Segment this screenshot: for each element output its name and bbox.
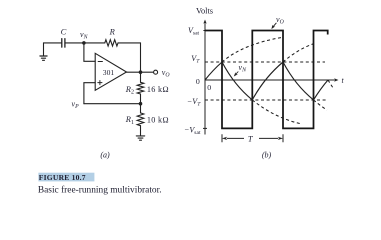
wire R2 to node vP to R1 xyxy=(140,94,142,113)
svg-text:C: C xyxy=(61,27,67,37)
svg-text:vO: vO xyxy=(276,15,285,26)
dashed exp arc 4 xyxy=(314,100,328,110)
tick -Vsat xyxy=(203,127,207,129)
svg-text:T: T xyxy=(248,134,254,143)
svg-text:Vsat: Vsat xyxy=(188,26,200,37)
tick Vsat xyxy=(203,30,205,32)
wire ground to C xyxy=(44,42,62,44)
dashed tail xyxy=(328,80,334,90)
wire node vP rail xyxy=(84,103,141,105)
resistor R xyxy=(105,40,118,46)
ground (left, at C input) xyxy=(40,43,47,60)
svg-text:(a): (a) xyxy=(100,150,110,159)
svg-text:FIGURE 10.7: FIGURE 10.7 xyxy=(39,173,86,182)
ground (below R1) xyxy=(136,136,144,140)
wire vN to inverting input xyxy=(84,43,95,61)
svg-text:10 kΩ: 10 kΩ xyxy=(147,115,169,124)
svg-text:Basic free-running multivibrat: Basic free-running multivibrator. xyxy=(38,185,162,196)
pin plus (noninverting input) xyxy=(98,81,102,85)
resistor R2 xyxy=(137,82,144,94)
svg-text:vN: vN xyxy=(239,63,248,74)
y axis xyxy=(204,22,206,135)
svg-text:(b): (b) xyxy=(262,150,272,159)
svg-text:16 kΩ: 16 kΩ xyxy=(147,85,169,94)
dashed exp arc 3 xyxy=(283,44,314,62)
waveform vN solid xyxy=(205,62,328,100)
node output junction xyxy=(139,70,143,74)
svg-text:0: 0 xyxy=(207,83,211,92)
label vO arrow xyxy=(271,15,284,29)
dashed -VT line xyxy=(205,99,327,101)
label vN arrow xyxy=(234,63,247,76)
svg-text:301: 301 xyxy=(103,68,115,77)
svg-text:Volts: Volts xyxy=(196,7,213,16)
T dimension xyxy=(222,134,283,142)
square wave vO xyxy=(205,31,328,129)
t axis xyxy=(205,79,337,81)
caption highlight xyxy=(38,173,94,182)
node vN junction xyxy=(82,41,86,45)
wire R to output branch xyxy=(118,43,141,82)
svg-text:R: R xyxy=(109,27,116,37)
svg-text:R2: R2 xyxy=(125,84,134,96)
wire noninverting input to vP rail xyxy=(84,83,95,104)
svg-text:t: t xyxy=(342,76,345,85)
pin minus (inverting input) xyxy=(98,61,102,63)
axis arrow right xyxy=(334,78,338,81)
capacitor C xyxy=(62,39,65,47)
op-amp 301 xyxy=(95,53,126,90)
svg-text:VT: VT xyxy=(191,54,200,64)
svg-text:vO: vO xyxy=(162,68,171,79)
dashed exp arc 1 xyxy=(222,37,283,62)
terminal vO xyxy=(154,70,158,74)
node vP junction (R2-R1 divider tap) xyxy=(139,102,143,106)
svg-text:−Vsat: −Vsat xyxy=(184,125,201,136)
dashed exp arc 2 xyxy=(252,100,302,124)
wire op-amp output to terminal vO xyxy=(127,71,154,73)
resistor R1 xyxy=(137,113,144,126)
axis arrow up xyxy=(203,20,206,24)
svg-text:vN: vN xyxy=(80,30,89,41)
svg-text:vP: vP xyxy=(72,100,80,111)
dashed VT line xyxy=(205,61,325,63)
wire R1 to ground xyxy=(140,126,142,136)
svg-text:−VT: −VT xyxy=(187,97,201,108)
svg-text:R1: R1 xyxy=(125,114,134,126)
svg-text:0: 0 xyxy=(196,77,200,86)
wire C to node vN to R xyxy=(65,42,105,44)
